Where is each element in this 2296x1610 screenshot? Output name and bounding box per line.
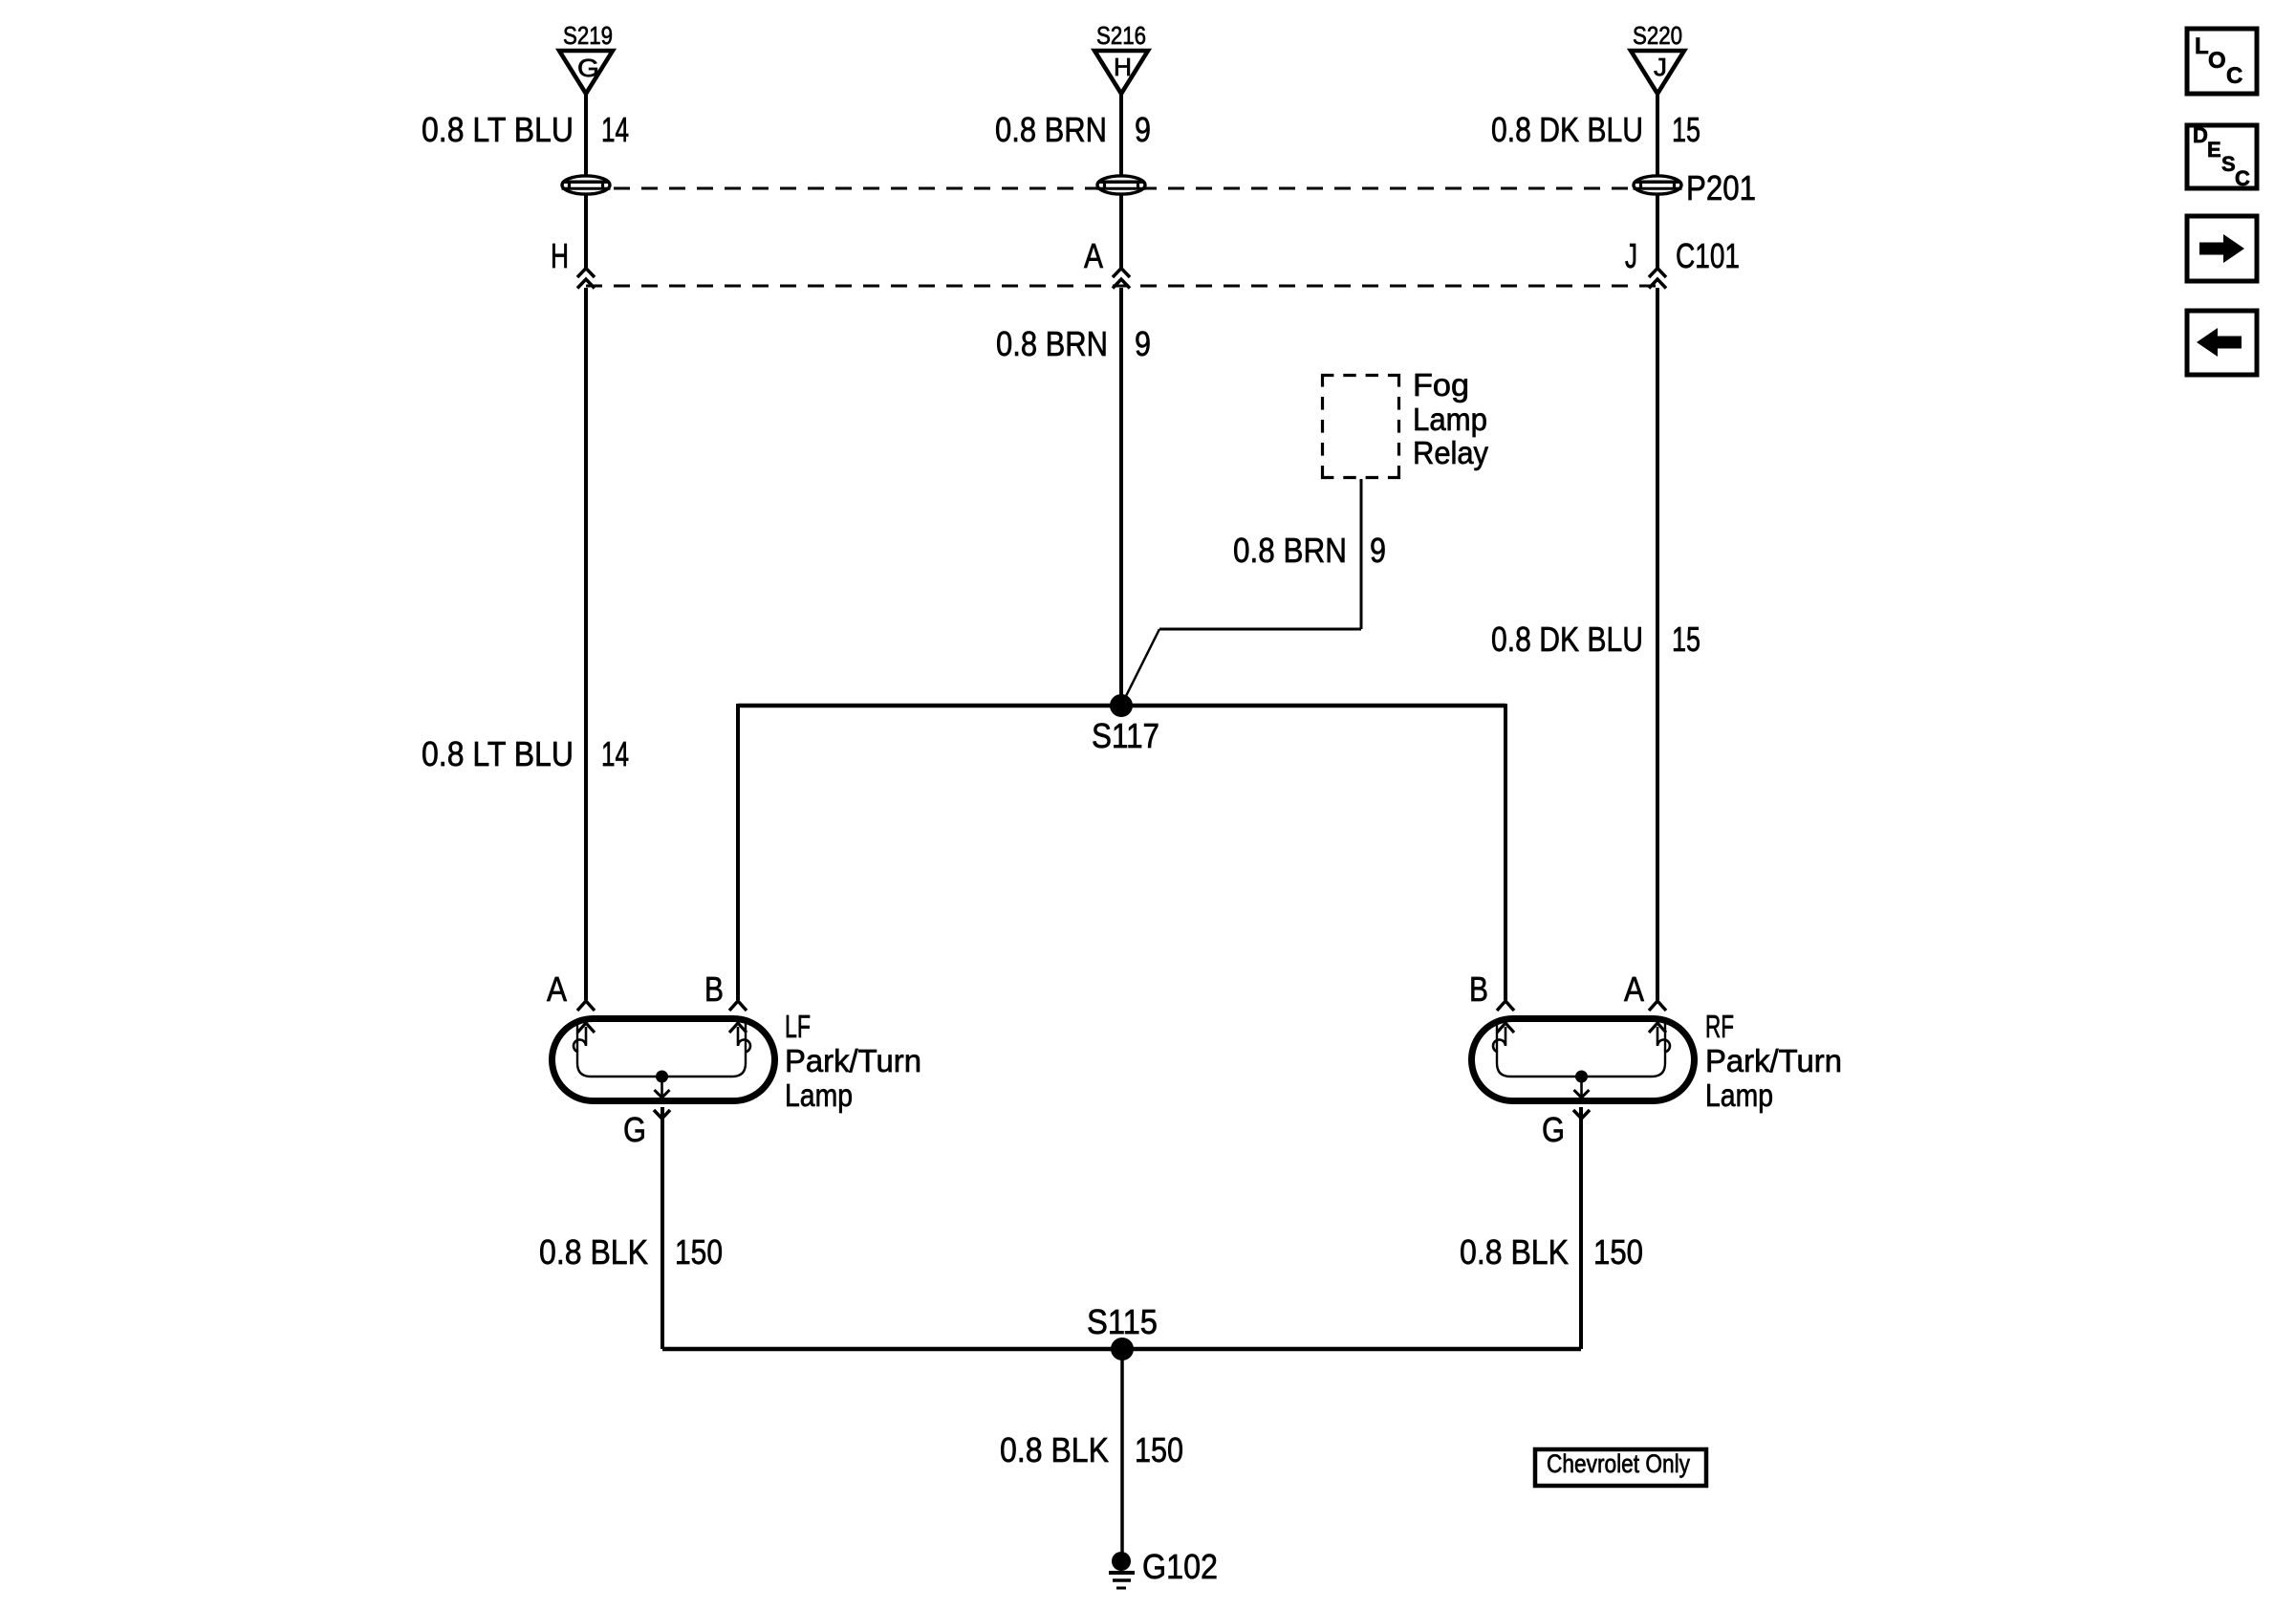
svg-text:J: J bbox=[1654, 53, 1667, 81]
svg-text:Lamp: Lamp bbox=[1705, 1077, 1773, 1113]
svg-text:A: A bbox=[547, 969, 567, 1009]
svg-text:9: 9 bbox=[1370, 531, 1386, 570]
svg-text:C101: C101 bbox=[1676, 236, 1740, 275]
svg-text:15: 15 bbox=[1672, 620, 1700, 659]
svg-text:14: 14 bbox=[601, 110, 629, 149]
svg-text:G: G bbox=[577, 54, 599, 82]
svg-text:Lamp: Lamp bbox=[785, 1077, 853, 1113]
svg-text:Fog: Fog bbox=[1413, 367, 1469, 402]
svg-text:0.8 BLK: 0.8 BLK bbox=[539, 1232, 648, 1272]
svg-text:Chevrolet Only: Chevrolet Only bbox=[1547, 1449, 1690, 1478]
svg-text:RF: RF bbox=[1705, 1009, 1734, 1044]
svg-text:J: J bbox=[1625, 236, 1637, 275]
svg-text:G102: G102 bbox=[1142, 1547, 1218, 1586]
svg-text:Relay: Relay bbox=[1413, 435, 1488, 470]
svg-text:C: C bbox=[2226, 63, 2242, 89]
svg-text:H: H bbox=[1114, 53, 1132, 81]
svg-text:S219: S219 bbox=[563, 21, 613, 50]
svg-text:Lamp: Lamp bbox=[1413, 402, 1487, 437]
svg-text:150: 150 bbox=[1593, 1232, 1643, 1272]
svg-text:0.8 DK BLU: 0.8 DK BLU bbox=[1491, 620, 1643, 659]
svg-text:15: 15 bbox=[1672, 110, 1700, 149]
svg-text:A: A bbox=[1084, 236, 1103, 275]
svg-text:LF: LF bbox=[785, 1009, 811, 1044]
svg-text:0.8 BRN: 0.8 BRN bbox=[996, 324, 1108, 363]
svg-text:0.8 BLK: 0.8 BLK bbox=[1000, 1430, 1109, 1469]
svg-text:L: L bbox=[2195, 33, 2209, 59]
svg-text:G: G bbox=[623, 1110, 646, 1149]
svg-text:B: B bbox=[1469, 969, 1488, 1009]
svg-text:0.8 LT BLU: 0.8 LT BLU bbox=[422, 734, 574, 773]
svg-text:E: E bbox=[2207, 138, 2221, 162]
svg-text:H: H bbox=[551, 236, 569, 275]
svg-text:A: A bbox=[1624, 969, 1644, 1009]
svg-text:S216: S216 bbox=[1096, 21, 1146, 50]
svg-text:150: 150 bbox=[675, 1232, 723, 1272]
svg-text:0.8 BLK: 0.8 BLK bbox=[1460, 1232, 1569, 1272]
svg-text:G: G bbox=[1542, 1110, 1565, 1149]
svg-text:9: 9 bbox=[1135, 110, 1151, 149]
svg-text:0.8 BRN: 0.8 BRN bbox=[995, 110, 1107, 149]
svg-text:S220: S220 bbox=[1633, 21, 1682, 50]
svg-text:0.8 BRN: 0.8 BRN bbox=[1233, 531, 1347, 570]
svg-text:14: 14 bbox=[601, 734, 629, 773]
svg-text:Park/Turn: Park/Turn bbox=[785, 1043, 921, 1078]
svg-text:150: 150 bbox=[1135, 1430, 1183, 1469]
svg-text:0.8 LT BLU: 0.8 LT BLU bbox=[422, 110, 574, 149]
svg-text:D: D bbox=[2193, 123, 2208, 147]
svg-text:B: B bbox=[704, 969, 724, 1009]
svg-text:S: S bbox=[2221, 152, 2236, 176]
svg-text:O: O bbox=[2208, 48, 2226, 74]
svg-text:9: 9 bbox=[1135, 324, 1151, 363]
svg-text:S117: S117 bbox=[1092, 716, 1159, 755]
svg-text:Park/Turn: Park/Turn bbox=[1705, 1043, 1842, 1078]
svg-text:P201: P201 bbox=[1686, 168, 1756, 207]
svg-text:C: C bbox=[2235, 166, 2250, 190]
svg-text:S115: S115 bbox=[1087, 1302, 1158, 1341]
svg-text:0.8 DK BLU: 0.8 DK BLU bbox=[1491, 110, 1643, 149]
